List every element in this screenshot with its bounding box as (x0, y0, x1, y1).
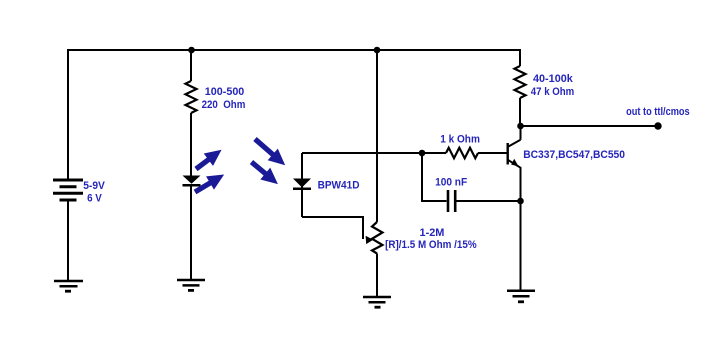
battery B1 (53, 180, 83, 200)
wire battery negative lead (67, 200, 69, 281)
wire potentiometer branch upper (376, 50, 378, 222)
wire output (520, 125, 658, 127)
label R2 value 1-2M / [R]/1.5 M Ohm /15% (385, 227, 477, 251)
wire LED branch lower (190, 185, 192, 280)
node output terminal (654, 122, 661, 129)
wire capacitor right horizontal (457, 200, 521, 202)
LED D1 (183, 176, 201, 186)
svg-text:BPW41D: BPW41D (318, 180, 360, 192)
wire wiper lead (362, 216, 364, 239)
wire photodiode bottom (302, 216, 363, 218)
LED D1 emission arrows (191, 144, 228, 199)
ground (LED branch) (177, 280, 205, 290)
photodiode D2 BPW41D (293, 179, 311, 189)
svg-text:100-500: 100-500 (205, 86, 245, 98)
svg-text:6 V: 6 V (87, 192, 102, 204)
wire emitter to ground (520, 201, 522, 291)
node junction top rail / potentiometer branch (374, 47, 381, 54)
resistor R3 1 k Ohm (446, 148, 478, 158)
wire R4 to collector node (519, 98, 521, 126)
node emitter / capacitor junction (517, 198, 524, 205)
node junction base node (1k / 100nF / photodiode) (419, 150, 426, 157)
svg-text:1 k Ohm: 1 k Ohm (440, 134, 480, 146)
resistor R1 220 Ohm (186, 81, 197, 113)
wire battery positive lead (67, 49, 69, 180)
resistor R4 47k (515, 66, 526, 98)
ground (emitter) (507, 291, 535, 302)
label battery value 5-9V / 6 V (83, 180, 105, 205)
potentiometer R2 body (372, 222, 383, 254)
wire base node to R3 (422, 152, 446, 154)
svg-text:220 Ohm: 220 Ohm (202, 99, 246, 111)
wire emitter vertical (520, 167, 522, 201)
capacitor C1 100 nF (448, 190, 455, 212)
transistor Q1 (508, 140, 521, 168)
wire collector branch top (519, 49, 521, 66)
svg-text:BC337,BC547,BC550: BC337,BC547,BC550 (523, 149, 625, 161)
svg-text:100 nF: 100 nF (435, 176, 467, 188)
wire collector vertical (520, 126, 522, 140)
photodiode D2 incoming light arrows (247, 133, 291, 190)
svg-text:47 k Ohm: 47 k Ohm (531, 86, 575, 98)
wire capacitor left vertical (421, 153, 423, 201)
svg-text:5-9V: 5-9V (83, 180, 105, 192)
svg-text:1-2M: 1-2M (420, 227, 445, 239)
node collector / output junction (517, 123, 524, 130)
wire LED branch middle (190, 113, 192, 177)
label R1 value 100-500 / 220 Ohm (202, 86, 246, 111)
ground (battery) (54, 281, 83, 291)
svg-text:40-100k: 40-100k (533, 73, 574, 85)
wire photodiode left vertical (301, 153, 303, 217)
wire capacitor left horizontal (421, 200, 447, 202)
wire top rail (67, 49, 520, 51)
label R4 value 40-100k / 47 k Ohm (531, 73, 575, 98)
node junction top rail / LED branch (188, 47, 195, 54)
wire potentiometer lower (376, 254, 378, 298)
svg-text:[R]/1.5 M Ohm /15%: [R]/1.5 M Ohm /15% (385, 239, 477, 251)
svg-text:out to ttl/cmos: out to ttl/cmos (626, 106, 690, 118)
potentiometer wiper arrow (366, 236, 374, 244)
wire LED branch upper (190, 50, 192, 81)
wire photodiode top (302, 152, 422, 154)
wire R3 to base (478, 152, 508, 154)
ground (potentiometer) (363, 297, 391, 307)
